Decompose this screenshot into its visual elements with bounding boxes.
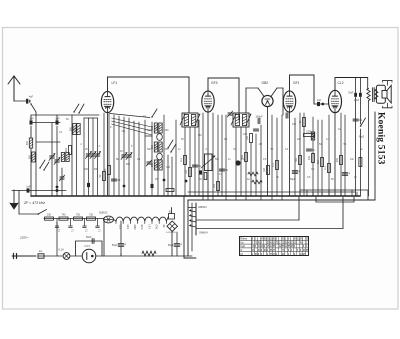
capacitor 50nF [91, 239, 93, 244]
inductor 300 [159, 123, 162, 133]
wire [123, 117, 125, 196]
resistor 10k [312, 154, 315, 163]
wire [151, 122, 153, 196]
wire [198, 120, 200, 196]
voltage selector [166, 221, 177, 234]
switch [30, 103, 31, 104]
wire [30, 126, 32, 138]
inductor 300 [29, 138, 32, 148]
coupling coil [157, 153, 163, 160]
heater chain winding [116, 217, 166, 223]
wire [35, 115, 37, 196]
resistor B1 [169, 214, 175, 220]
wire [202, 196, 204, 200]
switch [151, 116, 152, 117]
svg-text:ZF = 473 kHz: ZF = 473 kHz [23, 201, 45, 205]
voltage table [240, 237, 310, 256]
wire [84, 117, 98, 119]
capacitor 1nF [56, 120, 59, 124]
wire [188, 199, 375, 201]
wire [118, 116, 120, 196]
wire [163, 115, 165, 196]
wire [128, 118, 130, 196]
junction blob [235, 160, 240, 165]
wire (top box) [108, 77, 190, 113]
capacitor 10nF [359, 93, 362, 97]
wire [340, 113, 342, 196]
wire [313, 191, 355, 193]
wire [51, 123, 53, 197]
wire [277, 87, 283, 89]
wire [267, 107, 269, 196]
variable capacitor [127, 154, 132, 156]
coupling coil [157, 134, 163, 141]
svg-text:2M: 2M [198, 134, 201, 137]
capacitor 100pF [257, 118, 259, 123]
resistor 50k [245, 153, 248, 162]
scale lamp Sk8912 [99, 212, 114, 223]
junction [123, 185, 126, 188]
svg-text:4pF: 4pF [29, 96, 34, 99]
switch [43, 169, 44, 170]
variable capacitor [50, 155, 55, 157]
wire [316, 197, 354, 202]
svg-text:1M: 1M [263, 168, 266, 171]
resistor 5k [108, 166, 111, 175]
resistor [359, 158, 362, 167]
wire [103, 219, 105, 257]
variable capacitor [95, 153, 100, 155]
capacitor 1nF [27, 188, 30, 192]
wire [56, 126, 58, 196]
wire (top box) [290, 75, 315, 104]
svg-text:1A: 1A [39, 249, 42, 253]
wire [367, 78, 370, 89]
svg-text:+: + [124, 243, 126, 247]
wire [108, 113, 110, 196]
wire [351, 190, 353, 196]
svg-text:50nF: 50nF [348, 93, 354, 95]
wire [145, 135, 152, 137]
junction [321, 103, 324, 106]
svg-text:100: 100 [292, 123, 297, 126]
svg-text:220V~: 220V~ [19, 236, 29, 240]
ground [10, 190, 18, 209]
inductor 300 [32, 152, 35, 162]
svg-text:160: 160 [47, 214, 52, 217]
capacitor 1nF [30, 120, 33, 124]
inductor 300 [159, 142, 162, 152]
tube LF1 [101, 91, 113, 112]
wire (ground branch) [18, 191, 20, 215]
resistor 160 [45, 217, 54, 220]
wire [56, 115, 58, 123]
wire [167, 155, 169, 196]
trimmer capacitor [60, 176, 64, 178]
wire [299, 113, 301, 196]
svg-text:500: 500 [84, 168, 89, 171]
wire [120, 221, 122, 243]
wire [328, 190, 330, 196]
svg-text:750: 750 [76, 214, 81, 217]
wire [276, 118, 278, 196]
wire [83, 118, 85, 196]
wire [260, 196, 262, 200]
wire [188, 191, 313, 193]
wire [235, 127, 237, 196]
svg-text:100: 100 [243, 133, 248, 136]
svg-text:1nF: 1nF [55, 117, 60, 121]
wire (top box) [208, 78, 239, 120]
svg-text:500: 500 [94, 168, 99, 171]
junction [56, 189, 59, 192]
wire [255, 134, 257, 196]
wire [355, 97, 357, 196]
capacitor 1nF [317, 102, 320, 106]
wire [212, 113, 214, 196]
wire [70, 255, 82, 257]
wire [368, 101, 370, 197]
svg-text:50μF: 50μF [112, 243, 118, 247]
resistor (zigzag) [252, 180, 262, 184]
tube CL2 [329, 90, 342, 112]
svg-text:1M: 1M [259, 143, 262, 146]
resistor (zigzag) [142, 251, 156, 256]
wire [194, 127, 196, 196]
wire [271, 115, 273, 196]
pilot lamp [59, 248, 70, 260]
wire [245, 88, 247, 113]
wire [35, 112, 37, 115]
speaker cone [387, 85, 391, 103]
wire (top lead) [335, 78, 368, 91]
inductor 300 [77, 124, 80, 135]
resistor 1M [250, 134, 253, 143]
switch [39, 167, 40, 168]
inductor [311, 132, 314, 140]
speaker driver [382, 91, 387, 99]
wire [76, 135, 78, 196]
inductor 300 [154, 160, 157, 170]
wire [133, 121, 135, 196]
capacitor 0,1 [353, 118, 358, 120]
tube GF3 [202, 91, 214, 112]
wire [187, 200, 189, 256]
capacitor 50 [192, 164, 197, 166]
wire [97, 118, 99, 196]
inductor 300 [154, 123, 157, 133]
electrolytic capacitor [292, 170, 297, 172]
svg-text:GF1: GF1 [126, 225, 129, 230]
svg-text:LF1: LF1 [112, 81, 118, 85]
mains plug [12, 254, 36, 259]
junction [163, 179, 166, 182]
svg-text:Sk8912: Sk8912 [99, 212, 108, 215]
svg-text:GB2: GB2 [133, 225, 136, 231]
wire [96, 255, 192, 257]
wire [312, 117, 314, 196]
svg-text:GF1: GF1 [293, 81, 300, 85]
svg-text:0,1A: 0,1A [59, 248, 65, 252]
wire [321, 192, 323, 196]
speaker terminal bottom [383, 103, 393, 108]
wire [217, 115, 219, 196]
wire [114, 220, 117, 222]
wire [138, 122, 140, 196]
resistor 1M [189, 168, 192, 177]
wire [282, 88, 284, 115]
svg-text:50nF: 50nF [86, 236, 92, 239]
svg-text:Ug2: Ug2 [240, 245, 245, 248]
wire [202, 113, 204, 196]
electrolytic capacitor [342, 172, 347, 174]
wire (grid lead) [110, 114, 150, 118]
svg-text:300: 300 [147, 148, 152, 151]
svg-text:300: 300 [65, 147, 68, 152]
wire [92, 118, 94, 196]
switch [167, 147, 168, 148]
rectifier GY1 [82, 244, 96, 263]
resistor 1M [267, 166, 270, 175]
resistor 0,1 [328, 164, 331, 173]
svg-text:0,1: 0,1 [272, 163, 275, 167]
svg-text:300: 300 [26, 140, 29, 145]
resistor 740 [59, 217, 68, 220]
wire [36, 141, 60, 143]
svg-text:300: 300 [166, 166, 171, 169]
wire [374, 112, 376, 200]
wire [299, 190, 301, 196]
resistor 220k [304, 134, 315, 137]
wire (funnel right) [271, 88, 277, 97]
svg-text:GM604: GM604 [199, 231, 208, 235]
svg-text:300: 300 [73, 126, 76, 131]
wire [321, 120, 323, 196]
capacitor [199, 170, 202, 174]
resistor 10k [340, 156, 343, 165]
wire (funnel left) [258, 88, 264, 97]
wire [176, 232, 178, 243]
svg-text:730: 730 [89, 214, 94, 217]
antenna [8, 76, 20, 101]
wire [260, 125, 262, 196]
capacitor 50nF [354, 93, 357, 97]
wire [120, 247, 122, 256]
winding (zigzag) [367, 89, 370, 101]
svg-text:0,1: 0,1 [180, 158, 183, 162]
wire [19, 213, 38, 215]
wire [184, 127, 186, 196]
wire [31, 122, 60, 124]
wire [212, 196, 214, 200]
wire [359, 129, 361, 196]
svg-text:300: 300 [155, 125, 158, 130]
wire [188, 207, 196, 209]
switch [73, 111, 74, 112]
svg-text:1nF: 1nF [26, 185, 31, 189]
electrolytic capacitor 50μF [174, 243, 179, 245]
capacitor 0,1 [97, 219, 99, 227]
wire [171, 232, 173, 257]
wire [312, 192, 314, 196]
svg-text:10n: 10n [350, 158, 355, 161]
inductor 300 [154, 142, 157, 152]
variable capacitor [55, 159, 60, 161]
resistor [166, 189, 174, 192]
capacitor [87, 183, 90, 187]
wire [191, 203, 193, 251]
wire [356, 192, 358, 196]
wire [14, 100, 26, 102]
wire [71, 115, 73, 196]
connector GM604 [190, 203, 209, 235]
wire [166, 217, 168, 222]
svg-text:300: 300 [165, 148, 170, 151]
wire [344, 115, 346, 196]
svg-text:Koenig 5153: Koenig 5153 [376, 112, 386, 165]
wire fan (band cable) [112, 118, 153, 127]
wire [359, 78, 361, 93]
wire [189, 127, 191, 196]
junction [185, 180, 188, 183]
svg-text:300: 300 [69, 126, 72, 131]
wire [328, 115, 330, 196]
capacitor [285, 113, 287, 118]
wire [175, 120, 177, 196]
svg-text:1nF: 1nF [29, 117, 34, 121]
inductor 300 [73, 124, 76, 135]
inductor [66, 153, 69, 162]
wire [225, 196, 227, 200]
wire [314, 103, 329, 105]
svg-text:300: 300 [155, 162, 158, 167]
wire [30, 148, 32, 196]
svg-text:+: + [348, 172, 350, 176]
resistor 50k [299, 156, 302, 165]
capacitor 5n [306, 148, 311, 150]
wire [235, 196, 237, 200]
svg-text:300: 300 [155, 144, 158, 149]
wire [171, 157, 173, 196]
inductor 300 [159, 160, 162, 170]
wire [340, 190, 342, 196]
wire [355, 78, 357, 93]
switch (mains) [38, 213, 40, 215]
wire [196, 228, 343, 230]
trimmer capacitor [147, 161, 151, 163]
wire [342, 197, 344, 229]
capacitor 50 [219, 168, 224, 170]
wire [176, 247, 178, 256]
svg-text:GF3: GF3 [211, 81, 218, 85]
wire [240, 127, 242, 196]
wire [207, 112, 209, 196]
resistor 730 [87, 217, 96, 220]
wire [207, 196, 209, 200]
wire [281, 115, 283, 196]
winding (zigzag) [375, 89, 378, 99]
resistor 20k [217, 182, 220, 191]
wire [61, 168, 63, 196]
wire [294, 118, 296, 196]
wire [88, 118, 90, 196]
wire [306, 190, 308, 196]
resistor 0,1 [276, 161, 279, 170]
inductor [61, 153, 64, 162]
tube GB2 [262, 95, 273, 106]
svg-text:1M: 1M [246, 136, 249, 139]
wire [246, 87, 258, 89]
wire [31, 114, 99, 116]
wire [221, 115, 223, 196]
resistor 750 [74, 217, 83, 220]
antenna jack [26, 99, 28, 104]
wire (snubber loop) [76, 241, 103, 256]
resistor (zigzag) [248, 172, 258, 176]
wire [317, 120, 319, 196]
resistor 1k [303, 118, 306, 127]
wire [12, 190, 66, 192]
wire [107, 113, 109, 196]
resistor 0,1 [184, 156, 187, 165]
potentiometer (volume) [201, 154, 215, 171]
svg-text:1M: 1M [185, 170, 188, 173]
capacitor 0,1 [84, 219, 86, 227]
svg-text:300: 300 [165, 129, 170, 132]
svg-text:100pF: 100pF [255, 115, 263, 119]
junction [56, 186, 59, 189]
wire [157, 170, 159, 196]
svg-text:GY1: GY1 [85, 244, 91, 248]
svg-text:740: 740 [62, 214, 67, 217]
variable capacitor [86, 153, 91, 155]
capacitor 0,1 [70, 219, 72, 227]
wire [171, 208, 173, 214]
wire [303, 113, 305, 196]
svg-text:Röhre: Röhre [240, 238, 247, 241]
svg-text:+: + [180, 243, 182, 247]
capacitor 0,1 [111, 178, 116, 180]
wire [298, 197, 300, 220]
wire [359, 97, 361, 124]
svg-text:1nF: 1nF [317, 98, 322, 102]
loudspeaker [376, 85, 385, 103]
capacitor [151, 184, 154, 188]
switch [78, 112, 79, 113]
wire [281, 196, 283, 200]
speaker terminal top [383, 81, 393, 86]
svg-text:Ra2: Ra2 [359, 135, 365, 139]
svg-text:0,1: 0,1 [324, 166, 327, 170]
resistor 50 [103, 172, 106, 181]
svg-text:GB2: GB2 [262, 81, 269, 85]
wire [334, 113, 336, 196]
wire [225, 115, 227, 196]
IF transformer 2 [231, 113, 251, 127]
tube GF1 [283, 91, 295, 112]
svg-text:Uf: Uf [240, 253, 243, 256]
resistor [204, 173, 207, 180]
wire [271, 196, 273, 200]
wire [44, 255, 63, 257]
svg-text:500: 500 [126, 163, 131, 166]
wire [120, 254, 122, 257]
svg-text:GF3: GF3 [140, 225, 143, 230]
wire [184, 196, 196, 258]
svg-text:CL2: CL2 [338, 81, 344, 85]
capacitor [253, 128, 258, 130]
transformer core [372, 88, 374, 102]
